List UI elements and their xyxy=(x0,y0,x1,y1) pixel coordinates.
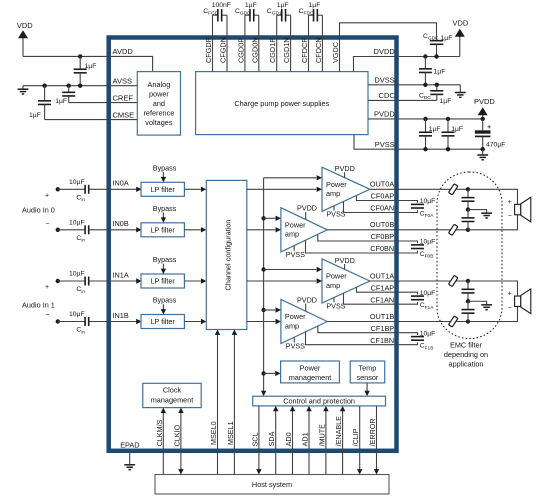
wire amp1A input 2 xyxy=(247,278,322,283)
svg-text:PVDD: PVDD xyxy=(374,110,395,119)
svg-text:+: + xyxy=(508,291,512,298)
capacitor 470uF electrolytic xyxy=(475,119,491,149)
svg-text:Charge pump power supplies: Charge pump power supplies xyxy=(234,99,329,108)
svg-text:PVSS: PVSS xyxy=(286,342,305,351)
pin label CFDCP xyxy=(300,38,309,63)
capacitor CF0B 10uF xyxy=(411,245,424,249)
wire Bypass arrow 2 xyxy=(161,264,166,274)
svg-text:DVSS: DVSS xyxy=(374,76,394,85)
svg-text:CDC: CDC xyxy=(379,91,396,100)
svg-text:amp: amp xyxy=(285,321,299,330)
wire OUT1A xyxy=(370,280,468,282)
wire pin CLKIO xyxy=(178,408,183,475)
label CF0A xyxy=(420,211,435,220)
svg-text:Audio In 0: Audio In 0 xyxy=(22,206,55,215)
svg-text:OUT1A: OUT1A xyxy=(370,271,394,280)
capacitor EMC bottom ch1 xyxy=(462,301,475,321)
node PVDD junction b xyxy=(446,117,450,121)
pin CGD0N (vertical lead) xyxy=(258,15,260,71)
svg-text:Power: Power xyxy=(326,180,347,189)
pin label CLKM/S xyxy=(155,419,164,446)
svg-text:VDD: VDD xyxy=(453,19,469,28)
svg-text:LP filter: LP filter xyxy=(151,317,176,326)
pin label VGDC xyxy=(331,42,340,63)
wire CF1AN xyxy=(344,293,418,304)
wire CF0AP xyxy=(357,196,418,203)
wire IN0A to LP filter xyxy=(109,187,142,192)
wire PVDD arrow xyxy=(478,107,488,119)
label CFDC xyxy=(299,8,314,17)
capacitor CF0A 10uF xyxy=(411,204,424,208)
capacitor Cin 10uF (IN0B) xyxy=(58,225,109,234)
svg-text:SDA: SDA xyxy=(267,431,276,446)
ground DVSS xyxy=(455,85,466,98)
label Power amp (U4 (power amp 1B)) xyxy=(285,312,306,330)
svg-text:1µF: 1µF xyxy=(55,98,67,105)
capacitor 1uF CREF xyxy=(62,86,75,103)
svg-text:100nF: 100nF xyxy=(212,2,231,9)
label CF1B xyxy=(420,343,434,352)
svg-text:10µF: 10µF xyxy=(69,220,85,227)
wire amp1A input 1 xyxy=(264,267,322,272)
wire CF1BN xyxy=(306,332,418,345)
block: LP filter 3 xyxy=(141,315,184,329)
ferrite bead (OUT0B) xyxy=(449,224,458,235)
value label 10uF (CF1A) xyxy=(420,290,436,297)
wire OUT1B xyxy=(327,321,468,323)
pin label AD1 xyxy=(301,432,310,446)
pin EPAD label xyxy=(120,440,139,449)
wire Bypass arrow 1 xyxy=(161,213,166,223)
svg-text:IN1A: IN1A xyxy=(113,270,129,279)
pin label PVSS xyxy=(375,140,395,149)
terminal dot (IN0A) xyxy=(56,187,60,191)
svg-text:Bypass: Bypass xyxy=(153,296,177,305)
node AVSS junction c xyxy=(78,84,82,88)
wire bus (channel config distribution) xyxy=(263,178,265,393)
svg-text:Control and protection: Control and protection xyxy=(283,397,355,406)
svg-text:1µF: 1µF xyxy=(277,2,289,9)
op-amp U4 (power amp 1B) xyxy=(281,299,327,343)
pin label IN1B xyxy=(113,311,129,320)
label 10uF (IN1A) xyxy=(69,271,85,278)
pin PVSS lead xyxy=(354,135,483,150)
svg-text:Analog: Analog xyxy=(148,80,171,89)
wire CF0AN xyxy=(344,202,418,213)
svg-text:CFDCP: CFDCP xyxy=(300,38,309,63)
wire amp0B input 1 xyxy=(264,216,281,221)
pin label OUT1B xyxy=(370,312,394,321)
wire speaker - ch1 xyxy=(468,306,518,321)
capacitor CDC 1uF xyxy=(430,85,443,101)
svg-text:VGDC: VGDC xyxy=(331,42,340,63)
pin label CF1BN xyxy=(370,336,394,345)
ground EMC ch0 xyxy=(468,210,492,218)
pin label CF0BN xyxy=(370,244,394,253)
svg-text:LP filter: LP filter xyxy=(151,277,176,286)
capacitor 1uF PVDD a xyxy=(419,119,432,149)
capacitor CGD1 1µF (charge pump flying cap) xyxy=(277,9,291,22)
ferrite bead (OUT1B) xyxy=(449,316,458,327)
wire LP filter 0 to channel configuration xyxy=(184,187,206,192)
pin label PVDD xyxy=(374,110,395,119)
svg-text:AD1: AD1 xyxy=(301,432,310,446)
wire pin /ENABLE xyxy=(340,406,345,475)
wire pin CLKM/S xyxy=(161,408,166,475)
wire pin AD1 xyxy=(306,406,311,475)
svg-text:management: management xyxy=(289,373,332,382)
svg-text:/MUTE: /MUTE xyxy=(317,424,326,447)
pin label CF0AN xyxy=(370,204,394,213)
wire CF0BN xyxy=(306,240,418,253)
pin label /ERROR xyxy=(368,418,377,446)
label Bypass 3 xyxy=(153,296,177,305)
wire IN1B to LP filter xyxy=(109,319,142,324)
label Audio In 1 xyxy=(22,300,55,309)
pin label CF1BP xyxy=(371,324,395,333)
pin CMSE xyxy=(113,110,135,119)
svg-text:application: application xyxy=(449,360,484,369)
ferrite bead (OUT0A) xyxy=(449,184,458,195)
svg-text:−: − xyxy=(508,305,512,312)
capacitor Cin 10uF (IN1B) xyxy=(58,317,109,326)
pin label /MUTE xyxy=(317,424,326,447)
pin CGD1N (vertical lead) xyxy=(290,15,292,71)
svg-text:Power: Power xyxy=(300,363,321,372)
node EMC junction top ch1 xyxy=(466,279,470,283)
svg-text:CF0BP: CF0BP xyxy=(371,232,395,241)
svg-text:voltages: voltages xyxy=(145,118,173,127)
svg-text:CF1BP: CF1BP xyxy=(371,324,395,333)
node PVDD junction a xyxy=(423,117,427,121)
label - speaker ch0 xyxy=(508,213,512,220)
svg-text:CGD0P: CGD0P xyxy=(236,38,245,63)
pin CGD1P (vertical lead) xyxy=(276,15,278,71)
pin CDC lead xyxy=(368,99,437,101)
pin label CDC xyxy=(379,91,396,100)
wire AVDD xyxy=(23,55,109,57)
label PVDD (U1 (power amp 0A)) xyxy=(335,164,355,177)
svg-text:amp: amp xyxy=(326,281,340,290)
label CF1A xyxy=(420,302,435,311)
block: Charge pump power supplies xyxy=(196,72,368,135)
wire EPAD xyxy=(129,453,131,465)
speaker ch1 xyxy=(515,289,531,314)
svg-text:CF1AP: CF1AP xyxy=(371,283,395,292)
capacitor 1uF CMSE xyxy=(38,86,51,120)
ground EPAD xyxy=(124,465,135,470)
wire pin AD0 xyxy=(290,406,295,475)
node AVSS junction b xyxy=(67,84,71,88)
svg-text:/CLIP: /CLIP xyxy=(351,428,360,446)
svg-text:10µF: 10µF xyxy=(69,271,85,278)
svg-text:10µF: 10µF xyxy=(420,198,436,205)
label 1uF (CMSE cap) xyxy=(29,112,41,119)
pin CFDCN (vertical lead) xyxy=(321,15,323,71)
svg-text:1µF: 1µF xyxy=(451,126,463,133)
label PVDD (U3 (power amp 1A)) xyxy=(335,256,355,269)
wire LP filter 2 to channel configuration xyxy=(184,278,206,283)
pin AVDD xyxy=(113,47,134,56)
pin label CFGDN xyxy=(219,37,228,63)
wire AVDD internal xyxy=(109,56,153,71)
node EMC mid junction ch1 xyxy=(466,299,470,303)
svg-text:CF0AP: CF0AP xyxy=(371,192,395,201)
label CGD1 xyxy=(267,8,282,17)
svg-text:CF0AN: CF0AN xyxy=(370,204,394,213)
value label 1µF (CGD0) xyxy=(245,2,257,9)
svg-text:CMSE: CMSE xyxy=(113,110,135,119)
svg-text:CGD1P: CGD1P xyxy=(268,38,277,63)
wire CMSE internal xyxy=(109,119,138,121)
wire OUT0A xyxy=(370,188,468,190)
svg-text:+: + xyxy=(45,192,49,199)
wire LP filter 1 to channel configuration xyxy=(184,227,206,232)
value label 1uF (PVDD cap b) xyxy=(451,126,463,133)
block: LP filter 2 xyxy=(141,274,184,288)
label CFGD xyxy=(203,8,219,17)
svg-text:10µF: 10µF xyxy=(420,290,436,297)
pin label CGD1P xyxy=(268,38,277,63)
capacitor 1uF AVDD-AVSS xyxy=(74,56,87,85)
svg-text:Temp: Temp xyxy=(358,363,376,372)
capacitor 1uF DVDD-DVSS xyxy=(419,57,432,85)
label CF0B xyxy=(420,251,434,260)
svg-text:CF1BN: CF1BN xyxy=(370,336,394,345)
node EMC junction top ch0 xyxy=(466,187,470,191)
label Bypass 2 xyxy=(153,255,177,264)
svg-text:1µF: 1µF xyxy=(309,2,321,9)
pin label OUT1A xyxy=(370,271,394,280)
block: Power management xyxy=(281,361,340,383)
value label 1uF (CDC) xyxy=(440,98,452,105)
wire CF1AP xyxy=(357,287,418,294)
value label 1uF (PVDD cap a) xyxy=(429,126,441,133)
block: LP filter 0 xyxy=(141,182,184,196)
pin label IN0B xyxy=(113,219,129,228)
svg-text:1µF: 1µF xyxy=(85,63,97,70)
svg-text:VDD: VDD xyxy=(17,21,33,30)
svg-text:CFGDP: CFGDP xyxy=(204,37,213,63)
label PVSS (U2 (power amp 0B)) xyxy=(286,246,305,259)
svg-text:AD0: AD0 xyxy=(284,432,293,446)
label 1uF (AVDD cap) xyxy=(85,63,97,70)
label - (Audio In 1) xyxy=(45,312,49,319)
node bus junction 2 xyxy=(261,267,265,271)
block: Control and protection xyxy=(253,396,386,406)
label 10uF (IN0B) xyxy=(69,220,85,227)
wire Bypass arrow 0 xyxy=(161,172,166,182)
block: Temp sensor xyxy=(350,361,385,383)
svg-text:PVSS: PVSS xyxy=(326,210,345,219)
svg-text:Channel configuration: Channel configuration xyxy=(223,219,232,290)
wire speaker + ch0 xyxy=(468,189,518,204)
capacitor EMC top ch1 xyxy=(462,281,475,301)
pin label CF1AP xyxy=(371,283,395,292)
wire Bypass arrow 3 xyxy=(161,304,166,314)
pin CFGDP (vertical lead) xyxy=(212,15,214,71)
label 1uF (CREF cap) xyxy=(55,98,67,105)
terminal dot (IN1B) xyxy=(56,319,60,323)
op-amp U3 (power amp 1A) xyxy=(322,259,370,303)
node bus junction 1 xyxy=(261,216,265,220)
wire CREF xyxy=(69,102,109,104)
wire LP filter 3 to channel configuration xyxy=(184,319,206,324)
pin label DVSS xyxy=(374,76,394,85)
ground AVSS xyxy=(18,86,29,94)
wire IN0B to LP filter xyxy=(109,227,142,232)
svg-text:−: − xyxy=(45,312,49,319)
pin label CGD0N xyxy=(250,37,259,63)
label PVSS (U1 (power amp 0A)) xyxy=(326,206,345,219)
svg-text:+: + xyxy=(487,124,491,131)
label Power amp (U3 (power amp 1A)) xyxy=(326,272,347,290)
wire amp1B input 2 xyxy=(247,319,281,324)
op-amp U2 (power amp 0B) xyxy=(281,208,327,252)
svg-text:PVDD: PVDD xyxy=(335,164,355,173)
pin label MSEL0 xyxy=(209,421,218,445)
svg-text:and: and xyxy=(153,99,165,108)
wire IN1A to LP filter xyxy=(109,278,142,283)
label 10uF (IN1B) xyxy=(69,311,85,318)
svg-text:CFDCN: CFDCN xyxy=(314,37,323,63)
polarity + (470uF) xyxy=(487,124,491,131)
svg-text:+: + xyxy=(508,199,512,206)
svg-text:EMC filter: EMC filter xyxy=(450,340,483,349)
value label 1µF (CFDC) xyxy=(309,2,321,9)
wire pin SDA xyxy=(273,406,278,475)
svg-text:10µF: 10µF xyxy=(420,330,436,337)
capacitor Cin 10uF (IN0A) xyxy=(58,185,109,194)
svg-text:AVSS: AVSS xyxy=(113,76,132,85)
wire AVSS xyxy=(23,85,109,87)
label Cin (IN0B) xyxy=(76,235,85,244)
svg-text:Bypass: Bypass xyxy=(153,255,177,264)
node AVSS junction a xyxy=(42,84,46,88)
svg-text:PVDD: PVDD xyxy=(335,256,355,265)
label EMC filter note xyxy=(444,340,488,368)
svg-text:Host system: Host system xyxy=(252,480,292,489)
wire pin SCL xyxy=(256,406,261,475)
net VDD (right) xyxy=(453,19,469,28)
pin label IN1A xyxy=(113,270,129,279)
pin label CF1AN xyxy=(370,295,394,304)
pin CFGDN (vertical lead) xyxy=(226,15,228,71)
value label 1uF (CGDC) xyxy=(441,35,453,42)
pin CREF xyxy=(113,93,134,102)
svg-text:Power: Power xyxy=(326,272,347,281)
net VDD (top-left) xyxy=(17,21,33,30)
svg-text:CFGDN: CFGDN xyxy=(219,37,228,63)
svg-text:PVDD: PVDD xyxy=(297,204,317,213)
pin VGDC lead xyxy=(340,23,437,72)
IC boundary (device outline) xyxy=(109,38,397,451)
svg-text:sensor: sensor xyxy=(356,373,378,382)
block: Channel configuration xyxy=(206,180,247,329)
label - (Audio In 0) xyxy=(45,220,49,227)
wire VDD to AVDD xyxy=(18,30,28,56)
svg-text:PVDD: PVDD xyxy=(474,97,495,106)
label - speaker ch1 xyxy=(508,305,512,312)
pin AVSS xyxy=(113,76,132,85)
terminal dot (IN1A) xyxy=(56,279,60,283)
pin label CFGDP xyxy=(204,37,213,63)
svg-text:CGD0N: CGD0N xyxy=(250,37,259,63)
pin label CGD0P xyxy=(236,38,245,63)
svg-text:OUT0B: OUT0B xyxy=(370,220,394,229)
label CGDC xyxy=(423,33,439,42)
wire pin MSEL0 xyxy=(215,330,220,475)
node bus junction 4 xyxy=(261,371,265,375)
svg-text:PVSS: PVSS xyxy=(375,140,395,149)
node AVDD junction xyxy=(78,54,82,58)
block: Host system xyxy=(155,475,389,495)
wire pin /MUTE xyxy=(323,406,328,475)
pin label SDA xyxy=(267,431,276,446)
capacitor EMC bottom ch0 xyxy=(462,210,475,230)
label Audio In 0 xyxy=(22,206,55,215)
svg-text:CLKM/S: CLKM/S xyxy=(155,419,164,446)
capacitor 1uF PVDD b xyxy=(442,119,455,149)
svg-text:Bypass: Bypass xyxy=(153,204,177,213)
svg-text:EPAD: EPAD xyxy=(120,440,139,449)
svg-text:−: − xyxy=(508,213,512,220)
svg-text:1µF: 1µF xyxy=(434,69,446,76)
wire pin /ERROR xyxy=(374,406,379,475)
node PVSS junction a xyxy=(423,147,427,151)
svg-text:IN0A: IN0A xyxy=(113,179,129,188)
svg-text:CF0BN: CF0BN xyxy=(370,244,394,253)
svg-text:1µF: 1µF xyxy=(429,126,441,133)
value label 10uF (CF0A) xyxy=(420,198,436,205)
capacitor CFDC 1µF (charge pump flying cap) xyxy=(309,9,323,22)
label + (Audio In 0) xyxy=(45,192,49,199)
pin label MSEL1 xyxy=(226,421,235,445)
block: Clock management xyxy=(143,383,201,407)
node PVDD junction c xyxy=(481,117,485,121)
label Cin (IN0A) xyxy=(76,195,85,204)
capacitor CGDC 1uF xyxy=(430,41,444,57)
label Bypass 0 xyxy=(153,163,177,172)
block: LP filter 1 xyxy=(141,223,184,237)
svg-text:1µF: 1µF xyxy=(245,2,257,9)
label PVDD (U4 (power amp 1B)) xyxy=(297,295,317,311)
svg-text:1µF: 1µF xyxy=(441,35,453,42)
label PVSS (U4 (power amp 1B)) xyxy=(286,337,305,350)
wire speaker + ch1 xyxy=(468,281,518,296)
wire VDD right arrow xyxy=(455,29,465,57)
svg-text:Bypass: Bypass xyxy=(153,163,177,172)
pin label CGD1N xyxy=(282,37,291,63)
value label 100nF (CFGD) xyxy=(212,2,231,9)
capacitor CFGD 100nF (charge pump flying cap) xyxy=(213,9,228,22)
wire bus to power management xyxy=(264,371,281,376)
block: Analog power and reference voltages xyxy=(137,72,180,136)
svg-text:1µF: 1µF xyxy=(29,112,41,119)
wire AVSS internal xyxy=(109,85,138,87)
svg-text:10µF: 10µF xyxy=(69,179,85,186)
node EMC junction bottom ch0 xyxy=(466,228,470,232)
wire pin MSEL1 xyxy=(232,330,237,475)
ground EMC ch1 xyxy=(468,301,492,309)
pin DVDD lead xyxy=(354,57,460,72)
pin label CLKIO xyxy=(172,424,181,446)
wire CF1BP xyxy=(318,326,418,335)
node PVSS junction b xyxy=(446,147,450,151)
pin label /CLIP xyxy=(351,428,360,446)
pin CFDCP (vertical lead) xyxy=(308,15,310,71)
svg-text:SCL: SCL xyxy=(250,432,259,446)
